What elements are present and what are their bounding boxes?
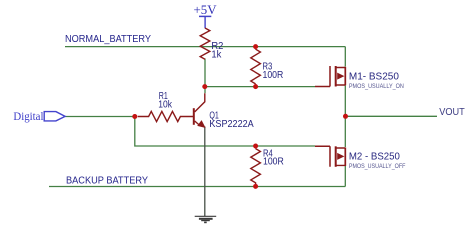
power +5V symbol [199,16,211,28]
svg-text:Digital: Digital [13,111,43,123]
svg-text:10k: 10k [158,100,172,111]
junction node R3 top [253,44,258,49]
wire NORMAL_BATTERY horizontal [65,46,345,48]
M2 arrow [337,153,344,160]
junction node Digital/R1 [132,114,137,119]
wire VOUT [345,115,437,117]
svg-text:M2 - BS250: M2 - BS250 [349,151,400,162]
Q1 emitter arrow [198,121,205,128]
svg-text:KSP2222A: KSP2222A [209,119,254,130]
wire BACKUP BATTERY horizontal [49,186,345,188]
transistor M1 (PMOS) [315,66,345,87]
svg-text:PMOS_USUALLY_ON: PMOS_USUALLY_ON [349,83,404,90]
resistor R4 [251,146,261,186]
svg-text:PMOS_USUALLY_OFF: PMOS_USUALLY_OFF [349,163,406,170]
svg-text:VOUT: VOUT [439,107,465,118]
transistor M2 (PMOS) [315,146,345,167]
ground [195,216,217,222]
wire Digital to junction [65,116,135,118]
svg-text:+5V: +5V [194,3,218,17]
svg-text:100R: 100R [263,70,284,81]
wire R2 bottom to collector [204,59,206,94]
M1 arrow [337,73,344,80]
junction node collector [202,84,207,89]
resistor R1 [138,111,194,121]
svg-text:1k: 1k [211,50,221,61]
resistor R2 [200,28,210,59]
junction node R3 bottom [253,84,258,89]
svg-text:M1- BS250: M1- BS250 [349,71,399,82]
wire junction down and right to R4 top [135,117,315,147]
junction node VOUT [343,114,348,119]
transistor Q1 [194,93,205,126]
wire M1 top to NORMAL_BATTERY [344,47,346,67]
svg-text:BACKUP BATTERY: BACKUP BATTERY [66,175,148,186]
wire M2 bottom to BACKUP wire [344,166,346,187]
svg-text:NORMAL_BATTERY: NORMAL_BATTERY [65,34,151,45]
junction node R4 top [253,144,258,149]
wire emitter to ground (gray) [204,127,206,217]
port Digital pentagon [44,112,65,121]
svg-text:100R: 100R [263,157,284,168]
wire collector junction to M1 gate [205,86,315,88]
junction node R4 bottom [253,184,258,189]
resistor R3 [251,47,261,87]
wire M1 bottom to VOUT node to M2 top [344,85,346,147]
